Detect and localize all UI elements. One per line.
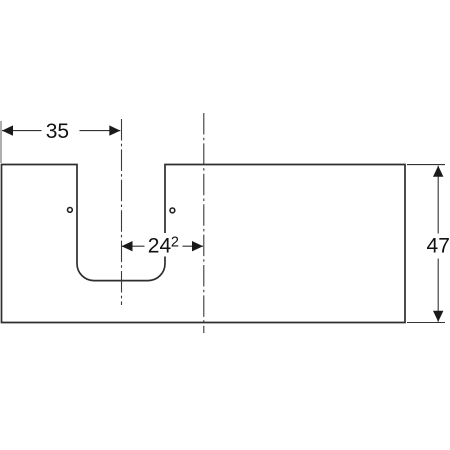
dimension line 24 xyxy=(122,245,204,247)
arrow 24 left xyxy=(122,241,133,251)
hole right xyxy=(170,208,175,213)
extension line left xyxy=(0,121,2,163)
arrow 35 right xyxy=(109,125,120,135)
arrow 24 right xyxy=(192,241,203,251)
svg-text:2: 2 xyxy=(171,234,179,250)
centerline countertop xyxy=(203,113,205,333)
label 35 xyxy=(42,121,80,141)
hole left xyxy=(68,208,73,213)
extension line bottom right xyxy=(407,322,445,324)
countertop outline with U-cutout xyxy=(2,165,406,323)
arrow 35 left xyxy=(2,125,13,135)
arrow 47 down xyxy=(433,311,443,322)
label 47 xyxy=(427,234,450,259)
svg-text:35: 35 xyxy=(46,120,69,143)
svg-text:24: 24 xyxy=(148,234,172,257)
svg-text:47: 47 xyxy=(427,234,450,257)
label 24 sup 2 xyxy=(145,233,183,257)
extension line top right xyxy=(407,164,445,166)
dimension line 47 xyxy=(437,166,439,322)
centerline cutout xyxy=(121,119,123,305)
dimension line 35 xyxy=(2,130,120,132)
arrow 47 up xyxy=(433,166,443,177)
